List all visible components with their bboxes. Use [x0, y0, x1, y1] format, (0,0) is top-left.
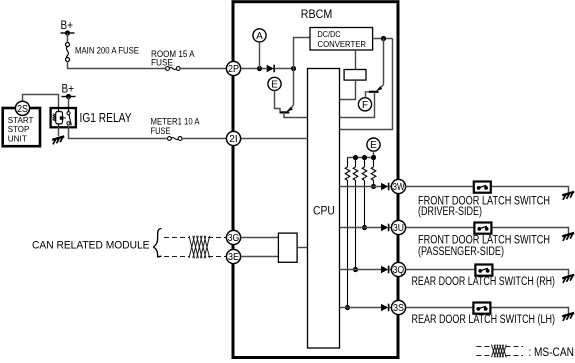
svg-text:CPU: CPU [313, 204, 335, 218]
label circle A [253, 29, 266, 42]
svg-text:(DRIVER-SIDE): (DRIVER-SIDE) [418, 206, 482, 218]
resistor R2 [362, 167, 367, 181]
svg-text:FUSE: FUSE [151, 126, 171, 136]
svg-text:E: E [370, 140, 377, 151]
node row 3W [371, 184, 376, 189]
bus node [353, 155, 358, 160]
wire riser to DC/DC [294, 38, 311, 69]
bus node [371, 155, 376, 160]
wire DC/DC out [373, 38, 393, 40]
ground (row 3S) [562, 313, 574, 317]
svg-text:3W: 3W [393, 182, 405, 193]
junction node [291, 66, 296, 71]
label circle E (right) [367, 138, 380, 151]
wire 2P to diode [240, 68, 266, 70]
svg-text:REAR DOOR LATCH SWITCH (LH): REAR DOOR LATCH SWITCH (LH) [412, 314, 556, 326]
diode D1 [267, 65, 274, 73]
node DC/DC out [381, 36, 386, 41]
pull-up bus [348, 157, 374, 159]
svg-text:2S: 2S [17, 104, 28, 115]
wire [180, 68, 226, 70]
svg-text:B+: B+ [61, 20, 74, 32]
svg-text:3S: 3S [393, 303, 404, 314]
label circle F [358, 98, 371, 111]
diode row 3U [381, 224, 388, 232]
wire A lead [259, 42, 261, 69]
resistor R1 [371, 167, 376, 181]
wire resistor to row 3W [373, 180, 375, 186]
wire resistor to row 3U [364, 180, 366, 227]
START STOP UNIT box [3, 108, 40, 146]
legend MS-CAN [476, 346, 491, 348]
node A junction [257, 66, 262, 71]
wire relay to fuse [69, 125, 168, 138]
row 3U wire (CPU to diode) [340, 227, 382, 229]
RBCM box [233, 2, 398, 358]
diode row 3S [381, 304, 388, 312]
wire [182, 138, 226, 140]
door latch switch (3S) [473, 303, 490, 314]
wire DC/DC to resistor box [355, 50, 357, 70]
svg-text:CONVERTER: CONVERTER [318, 40, 367, 49]
wire node down to Q2 [383, 39, 385, 85]
svg-text:2I: 2I [229, 134, 238, 145]
CPU box U3 [308, 69, 340, 349]
svg-text:IG1 RELAY: IG1 RELAY [80, 111, 133, 125]
svg-text:3U: 3U [393, 223, 404, 234]
door latch switch (3W) [474, 182, 491, 193]
wire 3E to CAN IF [241, 256, 279, 258]
node row 3S [345, 305, 350, 310]
label circle E (left) [268, 77, 281, 90]
ground (row 3W) [562, 192, 574, 196]
connector 3U [391, 220, 405, 234]
svg-text:3E: 3E [228, 252, 239, 263]
connector 2S [15, 101, 29, 115]
wire diode to 3Q [389, 269, 391, 271]
svg-text:3Q: 3Q [393, 265, 405, 276]
wire diode to 3S [389, 307, 391, 309]
wire 3W to switch/ground [406, 187, 569, 193]
connector 3W [391, 179, 405, 193]
wire resistor to row 3S [347, 180, 349, 307]
resistor R3 [353, 167, 358, 181]
wire 3G to CAN IF [241, 237, 279, 239]
svg-text:F: F [362, 100, 368, 111]
resistor box R5 [344, 70, 366, 81]
fuse METER1 10 A [168, 137, 172, 141]
DC/DC converter U2 [310, 28, 373, 51]
door latch switch (3U) [474, 223, 491, 234]
svg-text:E: E [271, 80, 278, 91]
svg-text:2P: 2P [228, 64, 239, 75]
row 3S wire (CPU to diode) [340, 307, 382, 309]
svg-text:B+: B+ [62, 84, 75, 96]
wire diode to 3U [389, 227, 391, 229]
transistor Q2 (F) [369, 91, 379, 93]
wire 3Q to switch/ground [406, 270, 569, 276]
ground (row 3U) [562, 233, 574, 237]
door latch switch (3Q) [475, 265, 492, 276]
wire [67, 33, 69, 43]
wire diode to 3W [389, 186, 391, 188]
relay IG1 box [51, 108, 76, 127]
wire coil to ground [58, 127, 60, 136]
node row 3Q [353, 267, 358, 272]
relay switch contact [67, 112, 70, 115]
svg-text:FUSE: FUSE [151, 58, 173, 68]
connector 3S [391, 300, 405, 314]
wire bus to resistor [364, 158, 366, 167]
wire bus to resistor [347, 158, 349, 167]
wire bus to resistor [355, 158, 357, 167]
wire 2I to CPU [240, 138, 307, 140]
svg-text:REAR DOOR LATCH SWITCH (RH): REAR DOOR LATCH SWITCH (RH) [412, 276, 556, 288]
wire [68, 97, 70, 110]
svg-text:3G: 3G [228, 233, 240, 244]
svg-text:MAIN 200 A FUSE: MAIN 200 A FUSE [75, 46, 139, 56]
wire diode to junction [274, 68, 293, 70]
wire 2S to relay coil [23, 95, 59, 110]
fuse ROOM 15 A [166, 67, 170, 71]
wire 3U to switch/ground [406, 228, 569, 234]
node row 3U [362, 225, 367, 230]
svg-text:(PASSENGER-SIDE): (PASSENGER-SIDE) [418, 246, 504, 258]
CAN interface box [278, 233, 297, 262]
bus node [362, 155, 367, 160]
wire 3S to switch/ground [406, 308, 569, 314]
svg-text:RBCM: RBCM [301, 7, 333, 21]
ground (row 3Q) [562, 275, 574, 279]
transistor Q1 (E) [280, 111, 290, 113]
MS-CAN twisted pair (module) [164, 237, 189, 239]
wire bus to resistor [373, 158, 375, 167]
wire CAN IF to CPU [297, 247, 307, 249]
connector 2P [226, 61, 240, 75]
svg-text:DC/DC: DC/DC [318, 30, 341, 39]
svg-text:UNIT: UNIT [8, 134, 28, 144]
ground (relay) [52, 136, 64, 140]
wire E to Q1 base [275, 91, 281, 112]
wire R5 to CPU [340, 80, 356, 99]
connector 3G [226, 230, 240, 244]
brace [154, 229, 162, 257]
fuse MAIN 200 A [66, 43, 70, 47]
svg-text:CAN RELATED MODULE: CAN RELATED MODULE [32, 240, 150, 252]
diode row 3Q [381, 266, 388, 274]
row 3Q wire (CPU to diode) [340, 269, 382, 271]
svg-text:: MS-CAN: : MS-CAN [528, 347, 574, 359]
connector 3Q [391, 262, 405, 276]
wire E to bus [373, 151, 375, 157]
wire junction to Q1 collector [293, 69, 295, 106]
relay coil [53, 114, 55, 121]
connector 3E [226, 249, 240, 263]
wire resistor to row 3Q [355, 180, 357, 269]
svg-text:A: A [256, 31, 263, 42]
diode row 3W [381, 183, 388, 191]
connector 2I [226, 131, 240, 145]
row 3W wire (CPU to diode) [340, 186, 382, 188]
wire [68, 62, 166, 69]
resistor R4 [345, 167, 350, 181]
wire rail to CPU [340, 39, 393, 130]
